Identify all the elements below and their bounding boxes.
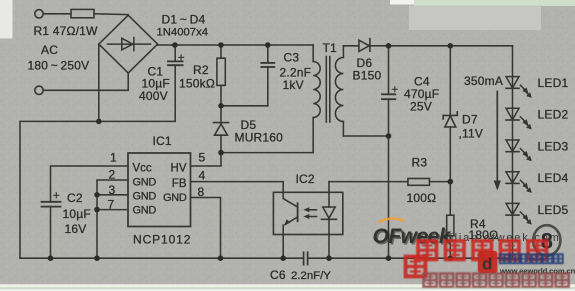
wire terminal to R1: [43, 13, 71, 15]
svg-text:1N4007x4: 1N4007x4: [157, 27, 209, 39]
svg-text:R1 47Ω/1W: R1 47Ω/1W: [34, 24, 99, 38]
svg-text:LED2: LED2: [538, 108, 569, 122]
svg-text:C3: C3: [284, 51, 300, 65]
svg-text:IC1: IC1: [153, 134, 172, 148]
capacitor C3: [267, 45, 269, 63]
svg-text:25V: 25V: [410, 100, 432, 114]
capacitor C2: [42, 201, 61, 203]
capacitor C1: [174, 45, 176, 61]
wire pin8 GND: [191, 198, 221, 259]
svg-text:,11V: ,11V: [459, 127, 484, 141]
svg-text:150kΩ: 150kΩ: [179, 77, 215, 91]
svg-text:GND: GND: [133, 177, 157, 189]
LED4: [506, 172, 532, 193]
wire terminal to bridge bottom: [43, 73, 128, 90]
watermark blue chars dianzi gongcheng shijie: [500, 254, 563, 263]
zener D7: [449, 46, 451, 116]
wire pin1 Vcc: [51, 166, 129, 202]
resistor R1: [71, 9, 94, 17]
scan edge: top strip pale green: [414, 0, 575, 6]
LED3: [506, 140, 532, 161]
secondary + rail: [370, 45, 513, 47]
resistor R2: [220, 45, 222, 58]
scan edge: bottom white strip: [0, 284, 575, 291]
resistor R3: [329, 181, 408, 183]
bottom ground rail right of C6: [308, 257, 513, 259]
watermark bottom red chars shepin he tianxian sheji zhuanjia: [424, 274, 569, 287]
svg-text:100Ω: 100Ω: [407, 191, 437, 205]
scan edge: top-right light block: [409, 6, 541, 31]
svg-text:R2: R2: [193, 63, 209, 77]
svg-text:Vcc: Vcc: [133, 163, 152, 175]
IC2 LED: [328, 182, 330, 207]
svg-text:1: 1: [110, 151, 117, 165]
transformer T1 secondary: [342, 46, 344, 58]
AC terminal bottom: [35, 86, 43, 94]
svg-text:OFweek: OFweek: [373, 225, 452, 248]
svg-text:GND: GND: [133, 191, 157, 203]
svg-text:LED3: LED3: [538, 139, 569, 153]
svg-text:5: 5: [199, 151, 206, 165]
wire pin2 GND: [97, 180, 128, 258]
IC2 light arrows: [307, 209, 317, 211]
bridge rectifier diamond: [99, 15, 158, 73]
svg-text:GND: GND: [133, 205, 157, 217]
svg-text:LED1: LED1: [538, 76, 569, 90]
IC2 optocoupler box: [273, 192, 342, 234]
watermark red chars yi di tuo pei xun: [418, 241, 546, 259]
svg-text:FB: FB: [172, 178, 187, 190]
svg-text:180 ~ 250V: 180 ~ 250V: [28, 59, 90, 73]
svg-text:1kV: 1kV: [283, 78, 304, 92]
svg-text:d: d: [482, 255, 492, 274]
wire bridge left corner down: [98, 44, 100, 121]
svg-text:MUR160: MUR160: [235, 131, 284, 145]
LED2: [506, 108, 532, 129]
svg-text:4: 4: [199, 169, 206, 183]
svg-text:2.2nF/Y: 2.2nF/Y: [291, 270, 331, 282]
scan edge: top-left white block: [0, 0, 13, 39]
scan edge: bottom green line: [0, 287, 575, 289]
svg-text:C2: C2: [67, 191, 83, 205]
svg-text:B150: B150: [353, 69, 382, 83]
transformer T1 core: [325, 57, 327, 123]
capacitor C4: [388, 46, 390, 95]
svg-text:8: 8: [198, 185, 205, 199]
capacitor C6: [303, 252, 305, 264]
IC2 phototransistor: [283, 192, 297, 206]
AC terminal top: [35, 10, 43, 18]
DC+ rail: [158, 44, 314, 46]
watermark red char dian: [406, 257, 426, 277]
svg-text:HV: HV: [171, 163, 187, 175]
svg-text:GND: GND: [163, 192, 187, 204]
transformer T1 primary: [312, 45, 314, 62]
diode D5: [220, 106, 222, 123]
svg-text:400V: 400V: [139, 89, 168, 103]
svg-text:C6: C6: [270, 268, 286, 282]
svg-text:NCP1012: NCP1012: [133, 232, 191, 246]
watermark eeworld logo: [478, 251, 498, 274]
current arrow 350mA: [496, 92, 498, 182]
wire D5 node to primary bottom: [221, 152, 313, 154]
LED chain wire: [512, 46, 514, 258]
watermark OFweek arc: [378, 219, 405, 223]
svg-text:LED4: LED4: [538, 171, 569, 185]
wire HV pin5: [191, 153, 222, 166]
svg-text:2: 2: [109, 168, 116, 182]
LED1: [506, 77, 532, 98]
svg-text:D7: D7: [462, 113, 478, 127]
svg-text:AC: AC: [41, 43, 58, 57]
wire pin7 GND: [97, 209, 128, 211]
watermark circled 8: [533, 225, 560, 255]
svg-text:3: 3: [109, 183, 116, 197]
svg-text:D1 ~ D4: D1 ~ D4: [162, 12, 206, 26]
bridge diode: [108, 43, 151, 45]
negative rail: [20, 121, 175, 258]
wire R1 to bridge top: [94, 13, 128, 16]
svg-text:10µF: 10µF: [63, 207, 91, 221]
svg-text:T1: T1: [323, 41, 338, 55]
bottom ground rail left of C6: [20, 257, 303, 259]
svg-text:LED5: LED5: [538, 203, 569, 217]
scan edge: top strip white: [390, 0, 415, 5]
diode D6: [343, 45, 359, 47]
svg-text:7: 7: [108, 198, 115, 212]
svg-text:R3: R3: [412, 156, 428, 170]
IC1 NCP1012 box: [128, 153, 191, 227]
svg-text:16V: 16V: [65, 222, 87, 236]
wire secondary bottom to C4: [343, 135, 388, 137]
wire pin4 FB: [191, 182, 284, 193]
resistor R4: [449, 182, 451, 216]
svg-text:IC2: IC2: [296, 172, 315, 186]
wire pin3 GND: [97, 194, 128, 196]
wire C3 bottom to D5 node: [221, 105, 268, 107]
LED5: [506, 203, 532, 224]
svg-text:350mA: 350mA: [464, 74, 503, 88]
